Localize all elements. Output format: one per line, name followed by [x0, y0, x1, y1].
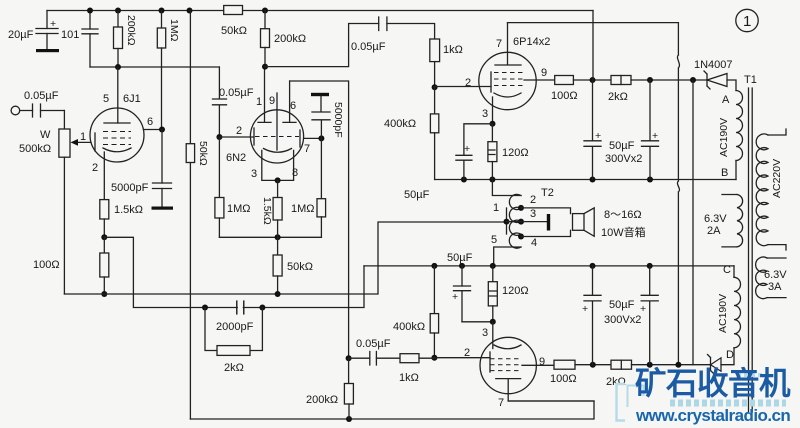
- capacitor 0.05uF coupling to 6N2 grid: [213, 67, 227, 137]
- circled figure number 1: [736, 9, 758, 31]
- wire feedback branch: [104, 237, 364, 307]
- svg-text:+: +: [582, 303, 588, 315]
- svg-text:5000pF: 5000pF: [332, 102, 344, 138]
- svg-text:6.3V: 6.3V: [764, 269, 787, 281]
- svg-text:9: 9: [269, 95, 275, 107]
- wire rail2: [364, 265, 734, 267]
- svg-text:2: 2: [92, 162, 98, 174]
- svg-text:1N4007: 1N4007: [694, 59, 733, 71]
- resistor 50k to rail: [277, 237, 279, 255]
- svg-text:50µF: 50µF: [609, 140, 635, 152]
- tube 6N2: [250, 110, 303, 163]
- resistor 1.5k cathode: [100, 200, 109, 219]
- svg-text:5000pF: 5000pF: [111, 182, 149, 194]
- resistor 1.5k cathode 6N2: [277, 180, 279, 197]
- capacitor 2000pF feedback: [237, 301, 244, 314]
- svg-text:+: +: [652, 130, 658, 142]
- resistor 1M plate load 6J1: [161, 11, 163, 29]
- svg-text:2A: 2A: [707, 225, 721, 237]
- svg-text:+: +: [464, 143, 470, 155]
- resistor 50k series in bus: [224, 6, 243, 15]
- wire grid lower: [434, 357, 490, 359]
- svg-text:1: 1: [80, 131, 86, 143]
- capacitor 50uF 300V upper-left: [584, 141, 601, 180]
- transformer T1 winding AC190V lower: [733, 266, 735, 277]
- wire grid upper 6P14: [435, 86, 491, 88]
- svg-text:0.05µF: 0.05µF: [351, 41, 386, 53]
- wire screen bus y67: [90, 66, 219, 68]
- capacitor 50uF 300V upper-right: [642, 80, 659, 180]
- transformer T1 core: [749, 88, 753, 412]
- transformer T1 winding 6.3V 2A: [737, 195, 743, 247]
- svg-text:3: 3: [482, 327, 488, 339]
- svg-text:50kΩ: 50kΩ: [221, 25, 247, 37]
- resistor 2k feedback parallel: [205, 308, 262, 351]
- svg-text:4: 4: [531, 237, 537, 249]
- svg-text:50kΩ: 50kΩ: [197, 141, 209, 166]
- resistor 2k upper: [611, 76, 631, 85]
- svg-text:1kΩ: 1kΩ: [443, 44, 463, 56]
- svg-text:2: 2: [465, 77, 471, 89]
- svg-text:9: 9: [541, 67, 547, 79]
- potentiometer W 500k: [59, 129, 70, 157]
- wire pin6 to plate node: [144, 129, 163, 131]
- svg-text:100Ω: 100Ω: [33, 259, 60, 271]
- svg-text:B: B: [721, 167, 728, 179]
- capacitor 101: [89, 11, 91, 68]
- speaker 8-16ohm: [573, 214, 585, 231]
- svg-text:W: W: [40, 129, 51, 141]
- resistor 200k plate load 6N2a: [264, 11, 266, 29]
- svg-text:50µF: 50µF: [609, 299, 635, 311]
- wire plate-a node to coupling: [265, 24, 379, 67]
- ground bar under 20uF: [36, 49, 59, 52]
- svg-text:400kΩ: 400kΩ: [384, 118, 416, 130]
- svg-text:2kΩ: 2kΩ: [608, 91, 628, 103]
- svg-text:2: 2: [530, 194, 536, 206]
- svg-text:1MΩ: 1MΩ: [291, 203, 315, 215]
- wire top B+ bus: [47, 10, 593, 12]
- capacitor 50uF cathode lower: [461, 266, 463, 286]
- svg-text:300Vx2: 300Vx2: [605, 153, 642, 165]
- svg-text:120Ω: 120Ω: [502, 147, 529, 159]
- svg-text:A: A: [722, 94, 730, 106]
- svg-text:2000pF: 2000pF: [216, 321, 254, 333]
- svg-text:+: +: [452, 291, 458, 303]
- svg-text:AC220V: AC220V: [771, 159, 783, 198]
- wire to volume pot: [63, 111, 65, 130]
- svg-text:C: C: [723, 264, 731, 276]
- svg-text:矿石收音机: 矿石收音机: [635, 365, 791, 401]
- svg-text:1: 1: [743, 13, 751, 30]
- svg-text:3: 3: [530, 208, 536, 220]
- svg-text:120Ω: 120Ω: [502, 285, 529, 297]
- resistor 100ohm lower: [554, 360, 575, 369]
- capacitor 0.05uF coupling lower: [346, 355, 352, 361]
- svg-text:200kΩ: 200kΩ: [306, 394, 338, 406]
- resistor 120ohm lower: [492, 266, 494, 282]
- svg-text:5: 5: [103, 93, 109, 105]
- svg-text:8: 8: [292, 167, 298, 179]
- svg-text:www.crystalradio.cn: www.crystalradio.cn: [635, 406, 790, 425]
- svg-text:8～16Ω: 8～16Ω: [604, 209, 642, 221]
- resistor 400k upper: [434, 87, 436, 114]
- wire pin7 6N2: [304, 137, 322, 139]
- tube 6P14 upper: [479, 52, 536, 109]
- resistor 50k dropper: [189, 11, 191, 420]
- svg-text:5: 5: [491, 234, 497, 246]
- resistor 100ohm: [103, 237, 105, 253]
- svg-text:10W音箱: 10W音箱: [601, 225, 646, 239]
- wire pin2 6N2: [219, 136, 254, 138]
- svg-text:T2: T2: [541, 187, 554, 199]
- svg-text:100Ω: 100Ω: [550, 373, 577, 385]
- svg-text:AC190V: AC190V: [718, 118, 730, 157]
- capacitor 50uF 300V lower-left: [584, 266, 601, 365]
- capacitor 50uF 300V lower-right: [641, 266, 658, 365]
- tube 6P14 lower: [480, 337, 536, 393]
- svg-text:1: 1: [256, 96, 262, 108]
- wire pin5 stub 6J1: [117, 67, 119, 123]
- wire pin2 cathode 6J1: [103, 152, 105, 200]
- wire upper anode run: [508, 22, 679, 24]
- svg-text:3: 3: [251, 168, 257, 180]
- transformer T2 output: [492, 180, 521, 196]
- diode 1N4007 upper: [704, 71, 710, 89]
- resistor 1M grid right: [320, 138, 322, 198]
- svg-text:50kΩ: 50kΩ: [287, 261, 313, 273]
- svg-text:9: 9: [539, 356, 545, 368]
- tube 6J1: [90, 108, 144, 162]
- svg-text:6: 6: [147, 116, 153, 128]
- resistor 120ohm upper: [491, 124, 493, 142]
- svg-text:3A: 3A: [768, 281, 782, 293]
- svg-text:D: D: [726, 349, 734, 361]
- svg-text:6.3V: 6.3V: [704, 213, 727, 225]
- wire B+ drop column x592: [592, 11, 595, 141]
- svg-text:3: 3: [482, 108, 488, 120]
- transformer T1 winding AC190V upper: [736, 91, 743, 161]
- capacitor 0.05uF input: [20, 110, 65, 112]
- transformer T1 winding AC220V: [756, 134, 768, 246]
- wire pin9 screen lower: [522, 364, 554, 366]
- svg-text:1MΩ: 1MΩ: [168, 19, 180, 42]
- svg-text:1.5kΩ: 1.5kΩ: [261, 197, 273, 225]
- svg-text:AC190V: AC190V: [717, 294, 729, 333]
- svg-text:50µF: 50µF: [447, 252, 473, 264]
- svg-text:6P14x2: 6P14x2: [513, 36, 550, 48]
- wire pin9 screen: [524, 79, 555, 81]
- svg-text:6N2: 6N2: [226, 152, 246, 164]
- svg-text:+: +: [595, 130, 601, 142]
- svg-text:0.05µF: 0.05µF: [219, 87, 254, 99]
- capacitor 20uF electrolytic: [46, 11, 48, 50]
- input jack: [11, 106, 20, 115]
- svg-text:7: 7: [304, 143, 310, 155]
- wire bottom bus: [190, 401, 594, 419]
- wire anode return column x693: [692, 80, 694, 365]
- wire plate-b 6N2 down line: [290, 81, 349, 358]
- svg-text:0.05µF: 0.05µF: [356, 338, 391, 350]
- wire rail1: [435, 179, 736, 181]
- svg-text:300Vx2: 300Vx2: [604, 314, 641, 326]
- svg-text:20µF: 20µF: [8, 29, 34, 41]
- resistor 1k upper grid stopper: [430, 39, 440, 62]
- svg-text:500kΩ: 500kΩ: [19, 143, 51, 155]
- resistor 1M grid left: [218, 137, 220, 198]
- svg-text:T1: T1: [744, 74, 757, 86]
- svg-text:6J1: 6J1: [123, 93, 141, 105]
- resistor 1k lower: [400, 354, 419, 363]
- capacitor 50uF cathode upper: [464, 124, 493, 156]
- wire pin7 lower anode: [508, 400, 594, 402]
- wire cathode line y237: [219, 236, 321, 238]
- svg-text:400kΩ: 400kΩ: [393, 321, 425, 333]
- svg-text:7: 7: [496, 38, 502, 50]
- svg-text:6: 6: [290, 100, 296, 112]
- diode 1N4007 lower: [708, 355, 714, 374]
- svg-text:0.05µF: 0.05µF: [24, 90, 59, 102]
- svg-text:1kΩ: 1kΩ: [399, 372, 419, 384]
- resistor 100ohm upper: [555, 76, 574, 85]
- node dots on top bus: [87, 8, 93, 14]
- resistor 200k (screen feed): [117, 11, 119, 28]
- capacitor 0.05uF coupling to upper 6P14: [379, 17, 387, 31]
- svg-text:7: 7: [498, 397, 504, 409]
- svg-text:+: +: [50, 18, 56, 30]
- wire ground rail y294: [64, 222, 506, 294]
- resistor 200k lower grid: [348, 358, 350, 383]
- svg-text:101: 101: [61, 29, 79, 41]
- resistor 400k lower: [433, 266, 435, 314]
- svg-text:50µF: 50µF: [404, 189, 430, 201]
- svg-text:200kΩ: 200kΩ: [125, 15, 137, 46]
- svg-text:2: 2: [236, 125, 242, 137]
- watermark decorations: [617, 384, 626, 421]
- svg-text:1: 1: [493, 202, 499, 214]
- svg-text:200kΩ: 200kΩ: [274, 33, 306, 45]
- svg-text:100Ω: 100Ω: [551, 90, 578, 102]
- capacitor 5000pF to ground: [161, 130, 163, 184]
- capacitor 5000pF pin7: [311, 93, 329, 96]
- svg-text:1MΩ: 1MΩ: [227, 203, 251, 215]
- svg-text:1.5kΩ: 1.5kΩ: [114, 204, 143, 216]
- transformer T1 winding 6.3V 3A: [756, 257, 767, 299]
- svg-text:2kΩ: 2kΩ: [224, 362, 244, 374]
- resistor 2k lower: [611, 360, 632, 369]
